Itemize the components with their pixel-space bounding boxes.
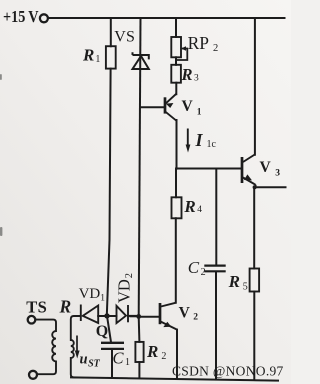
- svg-text:Q: Q: [96, 323, 108, 340]
- svg-text:CSDN @NONO.97: CSDN @NONO.97: [172, 364, 284, 379]
- svg-text:VS: VS: [114, 28, 135, 45]
- svg-text:TS: TS: [26, 297, 47, 316]
- svg-text:R: R: [59, 297, 72, 317]
- svg-text:+15 V: +15 V: [3, 7, 39, 26]
